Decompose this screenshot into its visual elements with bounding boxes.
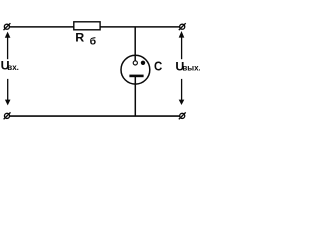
svg-text:R: R	[75, 31, 84, 45]
wire top-right: resistor to output terminal	[100, 26, 179, 28]
terminal input top-left	[4, 23, 11, 30]
terminal output top-right	[179, 23, 186, 30]
svg-text:вх.: вх.	[7, 63, 19, 72]
wire: tube cathode to bottom node	[134, 76, 136, 116]
tube anode (small circle electrode)	[133, 61, 137, 65]
resistor R6	[74, 22, 100, 30]
wire: top node to tube anode	[134, 27, 136, 61]
terminal input bottom-left	[4, 112, 11, 119]
voltage arrow Uout down (right)	[179, 79, 185, 105]
svg-text:вых.: вых.	[182, 64, 200, 73]
voltage arrow Uout up (right)	[179, 31, 185, 59]
wire bottom: between bottom terminals	[10, 115, 180, 117]
terminal output bottom-right	[179, 112, 186, 119]
svg-text:б: б	[90, 36, 97, 48]
tube cathode bar	[129, 75, 143, 78]
label Uвых.	[175, 59, 200, 73]
voltage arrow Uin down (left)	[5, 79, 11, 106]
label Uвх.	[1, 59, 19, 73]
gas-discharge tube C envelope	[121, 55, 150, 84]
tube gas-filling dot	[141, 61, 145, 65]
wire top-left: input terminal to resistor	[10, 26, 74, 28]
label R6	[75, 31, 96, 48]
svg-text:C: C	[154, 59, 162, 74]
voltage arrow Uin up (left)	[5, 32, 11, 60]
